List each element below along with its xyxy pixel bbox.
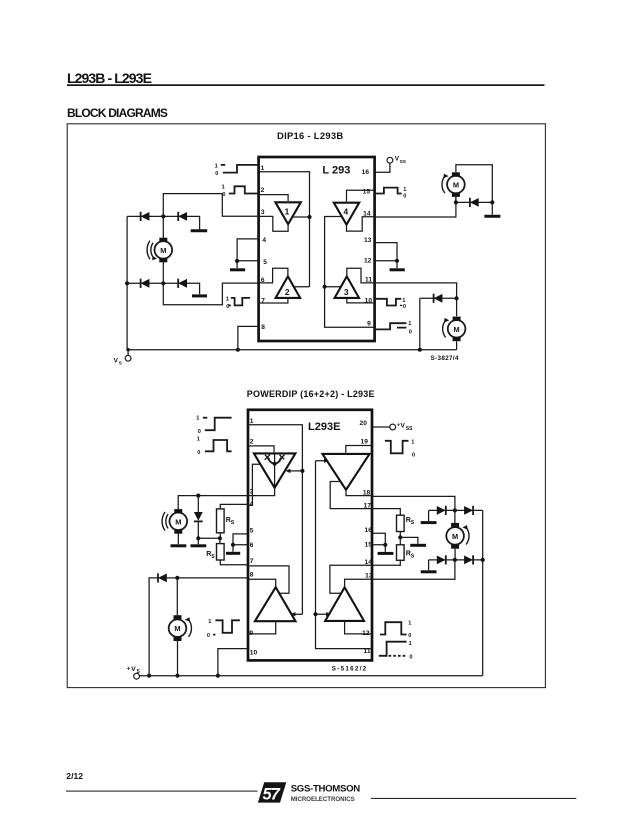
- input level symbol pin 11 (1/0 step with dashed zero): [379, 641, 413, 661]
- clamp diode lower-right: [464, 555, 473, 564]
- wire motor M5 top stem: [176, 578, 178, 616]
- junction pin 8 riser / bus: [236, 348, 240, 352]
- pin 9 label: [249, 630, 253, 637]
- motor M3: [448, 298, 466, 349]
- sense resistor RS4: [373, 545, 415, 566]
- motor M4: [170, 509, 188, 534]
- amplifier B (triangle): [323, 454, 370, 490]
- caption POWERDIP (16+2+2) - L293E: [247, 389, 375, 399]
- svg-text:2: 2: [261, 187, 265, 194]
- footer page number 2/12: [66, 771, 83, 781]
- wire pin 9 to amplifier C input: [248, 621, 276, 634]
- svg-text:0: 0: [408, 633, 411, 639]
- svg-text:10: 10: [250, 650, 258, 657]
- wire pin 20 to +VSS terminal: [373, 426, 390, 428]
- svg-text:7: 7: [250, 558, 254, 565]
- caption DIP16 - L293B: [277, 130, 343, 141]
- wire pin 3 to motor M4 top: [178, 496, 248, 510]
- terminal VSS: [387, 156, 407, 165]
- terminal VS: [114, 350, 131, 367]
- svg-text:1: 1: [215, 163, 218, 169]
- motor M1 rotation arcs: [147, 241, 157, 261]
- junction pins 16,15: [383, 543, 387, 547]
- svg-text:POWERDIP (16+2+2) - L293E: POWERDIP (16+2+2) - L293E: [247, 389, 375, 399]
- pin 10 label: [250, 650, 258, 657]
- wire motor M1 bottom stem: [162, 261, 164, 283]
- svg-text:16: 16: [362, 169, 370, 176]
- pin 14 label: [363, 210, 371, 217]
- input waveform symbol pin 2 (pulse): [222, 184, 259, 198]
- svg-text:S: S: [211, 554, 215, 560]
- wire amplifier C output to pin 8: [248, 579, 276, 587]
- svg-text:M: M: [174, 624, 180, 633]
- pin 12 label: [362, 630, 370, 637]
- IC U2 package outline: [248, 410, 372, 661]
- junction diode / sense node: [196, 536, 200, 540]
- wire pin 10 to amp 3 input: [347, 298, 374, 303]
- junction RS3/RS4: [398, 535, 402, 539]
- sense resistor RS3: [373, 509, 415, 545]
- sense resistor RS1: [217, 504, 249, 538]
- freewheel diode bottom-left: [141, 279, 150, 288]
- supply rail VS (left bus): [126, 216, 128, 349]
- svg-text:1: 1: [403, 187, 406, 193]
- ground (pins 16,15): [378, 545, 394, 554]
- pin 17 label: [364, 502, 372, 509]
- clamp diode M3: [434, 294, 443, 303]
- svg-text:2/12: 2/12: [66, 771, 83, 781]
- svg-text:MICROELECTRONICS: MICROELECTRONICS: [291, 796, 355, 803]
- wire motor M2 top loop: [456, 165, 492, 203]
- svg-text:13: 13: [364, 237, 372, 244]
- junction rail / lower row: [481, 558, 485, 562]
- wire motor M5 bottom stem: [177, 641, 179, 676]
- wire pins 13,12 to ground: [374, 243, 397, 261]
- svg-text:1: 1: [285, 206, 290, 216]
- wire M3 rail riser: [419, 298, 421, 349]
- junction VS corner: [126, 348, 129, 351]
- svg-text:+: +: [127, 666, 131, 672]
- ground (RS3/RS4 node): [400, 537, 426, 545]
- wire pin 8 to supply bus: [238, 326, 259, 349]
- section heading BLOCK DIAGRAMS: [67, 106, 168, 120]
- figure code S-5162/2: [332, 666, 368, 673]
- junction motor M3 top: [455, 296, 459, 300]
- junction EN2/amp3: [323, 285, 327, 289]
- clamp diode M2: [470, 198, 479, 207]
- freewheel diode bottom-right: [178, 279, 187, 288]
- pin 12 label: [364, 257, 372, 264]
- svg-text:M: M: [175, 517, 181, 526]
- junction pin 10 riser / bus: [216, 674, 220, 678]
- pin 13 label: [364, 237, 372, 244]
- motor M5: [169, 615, 187, 641]
- svg-text:DIP16 - L293B: DIP16 - L293B: [277, 130, 343, 141]
- wire pin 15 to amp 4 input: [347, 190, 375, 201]
- svg-text:1: 1: [196, 415, 199, 421]
- input waveform symbol pin 19 (notch): [385, 440, 415, 459]
- svg-text:M: M: [453, 181, 459, 190]
- svg-text:20: 20: [360, 420, 368, 427]
- wire pin 18 to motor M6 top: [373, 496, 455, 510]
- ground (sense node): [191, 538, 207, 546]
- svg-text:1: 1: [222, 184, 225, 190]
- ground (M2 rail): [484, 202, 500, 216]
- pin 4 label: [250, 501, 254, 508]
- motor M6: [446, 510, 464, 560]
- pin 8 label: [250, 571, 254, 578]
- svg-text:S: S: [137, 669, 141, 675]
- svg-text:0: 0: [198, 429, 201, 435]
- svg-text:15: 15: [365, 541, 373, 548]
- IC U1 part name L 293: [322, 164, 350, 176]
- svg-text:S: S: [411, 520, 415, 526]
- wire pin 7 to amplifier C sense: [248, 566, 289, 593]
- svg-text:3: 3: [261, 209, 265, 216]
- svg-text:16: 16: [365, 527, 373, 534]
- input waveform symbol pin 2 (pulse): [197, 437, 232, 457]
- footer left rule: [66, 791, 258, 792]
- svg-text:4: 4: [262, 237, 266, 244]
- svg-text:6: 6: [250, 542, 254, 549]
- svg-text:S-3827/4: S-3827/4: [431, 355, 460, 362]
- ground (top H-bridge): [191, 229, 208, 232]
- wires pins 16,15 to ground: [373, 533, 385, 545]
- pin 2 label: [261, 187, 265, 194]
- freewheel diode top-right: [178, 212, 187, 221]
- wire pin 8 row to supply: [149, 578, 248, 676]
- wire amplifier B output to pin 18: [346, 490, 373, 496]
- pin 15 label: [365, 541, 373, 548]
- input waveform symbol pin 9 (notch): [207, 619, 240, 639]
- junction pins 13,12: [395, 259, 399, 263]
- input level symbol pin 1 (1/0 step): [196, 415, 231, 435]
- junction motor M6 top: [453, 508, 457, 512]
- svg-text:L293E: L293E: [308, 421, 340, 433]
- junction EN2/amplifier D: [313, 612, 317, 616]
- pin 5 label: [250, 527, 254, 534]
- wire pin 19 to amplifier B input: [346, 446, 373, 453]
- pin 7 label: [250, 558, 254, 565]
- wire amplifier D output to pin 13: [345, 579, 373, 587]
- svg-text:M: M: [452, 532, 458, 541]
- pin 10 label: [365, 298, 373, 305]
- wire pin 4 to amplifier A sense: [248, 464, 260, 505]
- svg-text:2: 2: [250, 439, 254, 446]
- pin 2 label: [250, 439, 254, 446]
- svg-text:S-5162/2: S-5162/2: [332, 666, 368, 673]
- wire pin 13 to motor M6 bottom: [373, 560, 455, 579]
- motor M3 rotation arc: [443, 318, 450, 338]
- svg-text:M: M: [160, 246, 166, 255]
- pin 5 label: [263, 259, 267, 266]
- pin 19 label: [361, 439, 369, 446]
- diagram outer frame: [67, 124, 545, 688]
- junction diode riser / bus: [147, 674, 151, 678]
- wire sense node row: [198, 537, 220, 539]
- pin 20 label: [360, 420, 368, 427]
- pin 1 label: [250, 418, 254, 425]
- pin 11 label: [365, 277, 372, 284]
- junction pin 3 / clamp diode: [196, 494, 200, 498]
- amplifier A (triangle with output stage detail): [254, 453, 296, 487]
- wire pin 12 to amplifier D input: [345, 621, 373, 634]
- supply rail (right): [482, 510, 484, 675]
- svg-text:S: S: [231, 520, 235, 526]
- motor M2 rotation arc: [442, 174, 449, 194]
- SGS-THOMSON logo mark: [258, 782, 286, 803]
- junction M3 riser / bus: [418, 348, 422, 352]
- svg-text:1: 1: [411, 440, 414, 446]
- svg-text:L 293: L 293: [322, 164, 350, 176]
- footer wordmark MICROELECTRONICS: [291, 796, 355, 803]
- wire amp 1 output to pin 3: [259, 216, 288, 231]
- svg-text:S: S: [411, 553, 415, 559]
- pin 3 label: [261, 209, 265, 216]
- input waveform symbol pin 7 (notch): [226, 296, 250, 310]
- wire amp 2 output to pin 6: [259, 268, 288, 283]
- amplifier C (triangle): [255, 587, 296, 621]
- input waveform symbol pin 10 (notch): [374, 298, 406, 310]
- pin 8 label: [261, 324, 265, 331]
- wire pin 17 to amplifier B sense: [330, 482, 373, 509]
- enable net EN2 from pin 9: [325, 217, 375, 328]
- motor M6 rotation arc: [462, 525, 469, 545]
- wires pins 5,6 to ground: [233, 534, 248, 545]
- pin 16 label: [365, 527, 373, 534]
- input waveform symbol pin 12 (pulse): [380, 621, 411, 640]
- ground (upper clamp row): [421, 510, 437, 522]
- svg-text:1: 1: [197, 437, 200, 443]
- junction EN1/amp1: [307, 215, 311, 219]
- pin 13 label: [365, 573, 373, 580]
- svg-text:0: 0: [409, 329, 412, 335]
- input level symbol pin 1 (1/0 step): [215, 163, 259, 177]
- junction bus / bottom rail: [125, 281, 129, 285]
- svg-text:4: 4: [343, 207, 348, 217]
- clamp diode upper-left: [437, 506, 446, 515]
- svg-text:1: 1: [226, 296, 229, 302]
- wire lower clamp row: [429, 559, 483, 561]
- wire output row pin 3 side (top H-bridge rail): [127, 216, 200, 229]
- svg-text:2: 2: [285, 287, 290, 297]
- junction motor M5 / bus: [175, 674, 179, 678]
- header title L293B - L293E: [67, 70, 152, 86]
- wire upper clamp row: [429, 509, 483, 511]
- svg-text:BLOCK DIAGRAMS: BLOCK DIAGRAMS: [67, 106, 168, 120]
- ground (lower clamp row): [421, 560, 437, 572]
- footer wordmark SGS-THOMSON: [291, 783, 361, 794]
- wire pin 2 to amp 1 input: [259, 195, 288, 201]
- svg-text:0: 0: [403, 194, 406, 200]
- junction pin 8 / motor M5: [175, 576, 179, 580]
- svg-text:0: 0: [207, 633, 210, 639]
- ground (pins 13,12): [390, 261, 405, 270]
- svg-text:0: 0: [409, 654, 412, 660]
- terminal +VSS: [390, 423, 413, 432]
- motor M5 rotation arc: [185, 617, 192, 637]
- junction M2 right rail: [490, 200, 494, 204]
- svg-text:3: 3: [344, 287, 349, 297]
- svg-text:12: 12: [364, 257, 372, 264]
- svg-text:1: 1: [409, 641, 412, 647]
- wire pin 14 to amplifier D sense: [330, 565, 373, 593]
- wire amp 3 output to pin 11: [347, 268, 374, 283]
- wire motor M1 top to pin 3 (jog): [163, 194, 258, 217]
- wire amp 4 output to pin 14: [347, 217, 375, 231]
- svg-text:0: 0: [412, 453, 415, 459]
- motor M2: [447, 172, 465, 197]
- wire pin 11 to motor M3: [374, 283, 456, 298]
- clamp diode lower-left: [437, 555, 446, 564]
- pin 15 label: [363, 189, 371, 196]
- svg-text:8: 8: [250, 571, 254, 578]
- input waveform symbol pin 15 (pulse): [374, 187, 406, 200]
- junction RS1/RS2: [218, 536, 222, 540]
- wire motor M2 bottom row: [456, 197, 492, 203]
- svg-text:0: 0: [403, 304, 406, 310]
- pin 11 label: [364, 648, 371, 655]
- clamp diode (down) with ground: [194, 496, 203, 539]
- svg-text:SS: SS: [406, 426, 413, 432]
- svg-text:L293B - L293E: L293B - L293E: [67, 70, 152, 86]
- svg-text:S: S: [119, 360, 123, 366]
- sense resistor RS2: [206, 538, 248, 564]
- wire pin 14 to motor M2: [374, 197, 456, 217]
- wire output row pin 6 side (bottom H-bridge rail): [127, 283, 200, 294]
- freewheel diode (pin 8 row): [158, 573, 167, 582]
- pin 4 label: [262, 237, 266, 244]
- junction pins 4,5: [235, 259, 239, 263]
- svg-text:5: 5: [250, 527, 254, 534]
- svg-text:1: 1: [208, 619, 211, 625]
- svg-text:1: 1: [250, 418, 254, 425]
- svg-text:19: 19: [361, 439, 369, 446]
- svg-text:57: 57: [263, 786, 281, 804]
- clamp diode upper-right: [464, 506, 473, 515]
- header rule: [67, 84, 545, 86]
- ground (pins 5,6): [226, 545, 240, 554]
- amplifier 4 (triangle): [334, 203, 359, 225]
- enable net EN2 from pin 11: [316, 459, 373, 649]
- wire pins 4,5 to ground: [237, 239, 259, 261]
- amplifier D (triangle): [325, 587, 364, 621]
- freewheel diode top-left: [141, 212, 150, 221]
- ground (bottom H-bridge): [192, 294, 207, 297]
- svg-text:5: 5: [263, 259, 267, 266]
- svg-text:M: M: [454, 325, 460, 334]
- pin 7 label: [261, 298, 265, 305]
- svg-text:SS: SS: [400, 159, 407, 165]
- svg-text:8: 8: [261, 324, 265, 331]
- junction motor M6 bottom: [453, 558, 457, 562]
- wire motor M1 bottom to pin 6 (jog): [163, 283, 258, 305]
- figure code S-3827/4: [431, 355, 460, 362]
- ground (motor M4): [171, 533, 187, 546]
- wire pin 10 to supply bus: [218, 649, 248, 676]
- svg-text:1: 1: [261, 165, 265, 172]
- svg-text:9: 9: [367, 321, 371, 328]
- svg-text:1: 1: [402, 298, 405, 304]
- svg-text:0: 0: [197, 450, 200, 456]
- motor M1: [155, 238, 173, 263]
- svg-text:13: 13: [365, 573, 373, 580]
- svg-text:V: V: [131, 666, 136, 673]
- pin 3 label: [250, 489, 254, 496]
- pin 6 label: [250, 542, 254, 549]
- pin 14 label: [365, 559, 373, 566]
- pin 9 label: [367, 321, 371, 328]
- pin 1 label: [261, 165, 265, 172]
- junction motor M1 top: [161, 214, 165, 218]
- amplifier 1 (triangle): [275, 202, 300, 224]
- amplifier 3 (triangle): [335, 276, 359, 298]
- ground (pins 4,5): [230, 261, 245, 270]
- wire pin 7 to amp 2 input: [259, 298, 288, 303]
- pin 6 label: [261, 277, 265, 284]
- input level symbol pin 9 (1/0 step): [374, 321, 412, 335]
- wire amplifier A output to pin 3: [248, 488, 275, 496]
- supply bus +VS (bottom): [140, 675, 483, 677]
- junction motor M2 bottom: [454, 200, 458, 204]
- junction EN1/amplifier A: [300, 469, 304, 473]
- svg-text:1: 1: [408, 321, 411, 327]
- IC U1 package outline: [259, 157, 375, 341]
- motor M4 rotation arcs: [162, 512, 168, 531]
- wire pin 16 to VSS terminal: [374, 163, 390, 172]
- pin 16 label: [362, 169, 370, 176]
- svg-text:10: 10: [365, 298, 373, 305]
- svg-text:1: 1: [408, 621, 411, 627]
- svg-text:V: V: [400, 423, 405, 430]
- enable net EN1 from pin 1: [248, 425, 302, 617]
- amplifier 2 (triangle): [276, 276, 301, 298]
- junction pins 5,6: [231, 543, 235, 547]
- footer right rule: [371, 798, 576, 799]
- junction motor M1 bottom: [161, 281, 165, 285]
- pin 18 label: [363, 489, 371, 496]
- wire M3 top row: [420, 297, 457, 299]
- svg-text:15: 15: [363, 189, 371, 196]
- enable net EN1 from pin 1: [259, 172, 310, 287]
- wire motor M1 top stem: [162, 216, 164, 238]
- svg-text:0: 0: [215, 171, 218, 177]
- IC U2 part name L293E: [308, 421, 340, 433]
- supply bus VS (bottom): [127, 349, 457, 351]
- terminal +VS: [127, 666, 141, 679]
- wire pin 2 to amplifier A input: [248, 446, 274, 452]
- svg-text:SGS-THOMSON: SGS-THOMSON: [291, 783, 361, 794]
